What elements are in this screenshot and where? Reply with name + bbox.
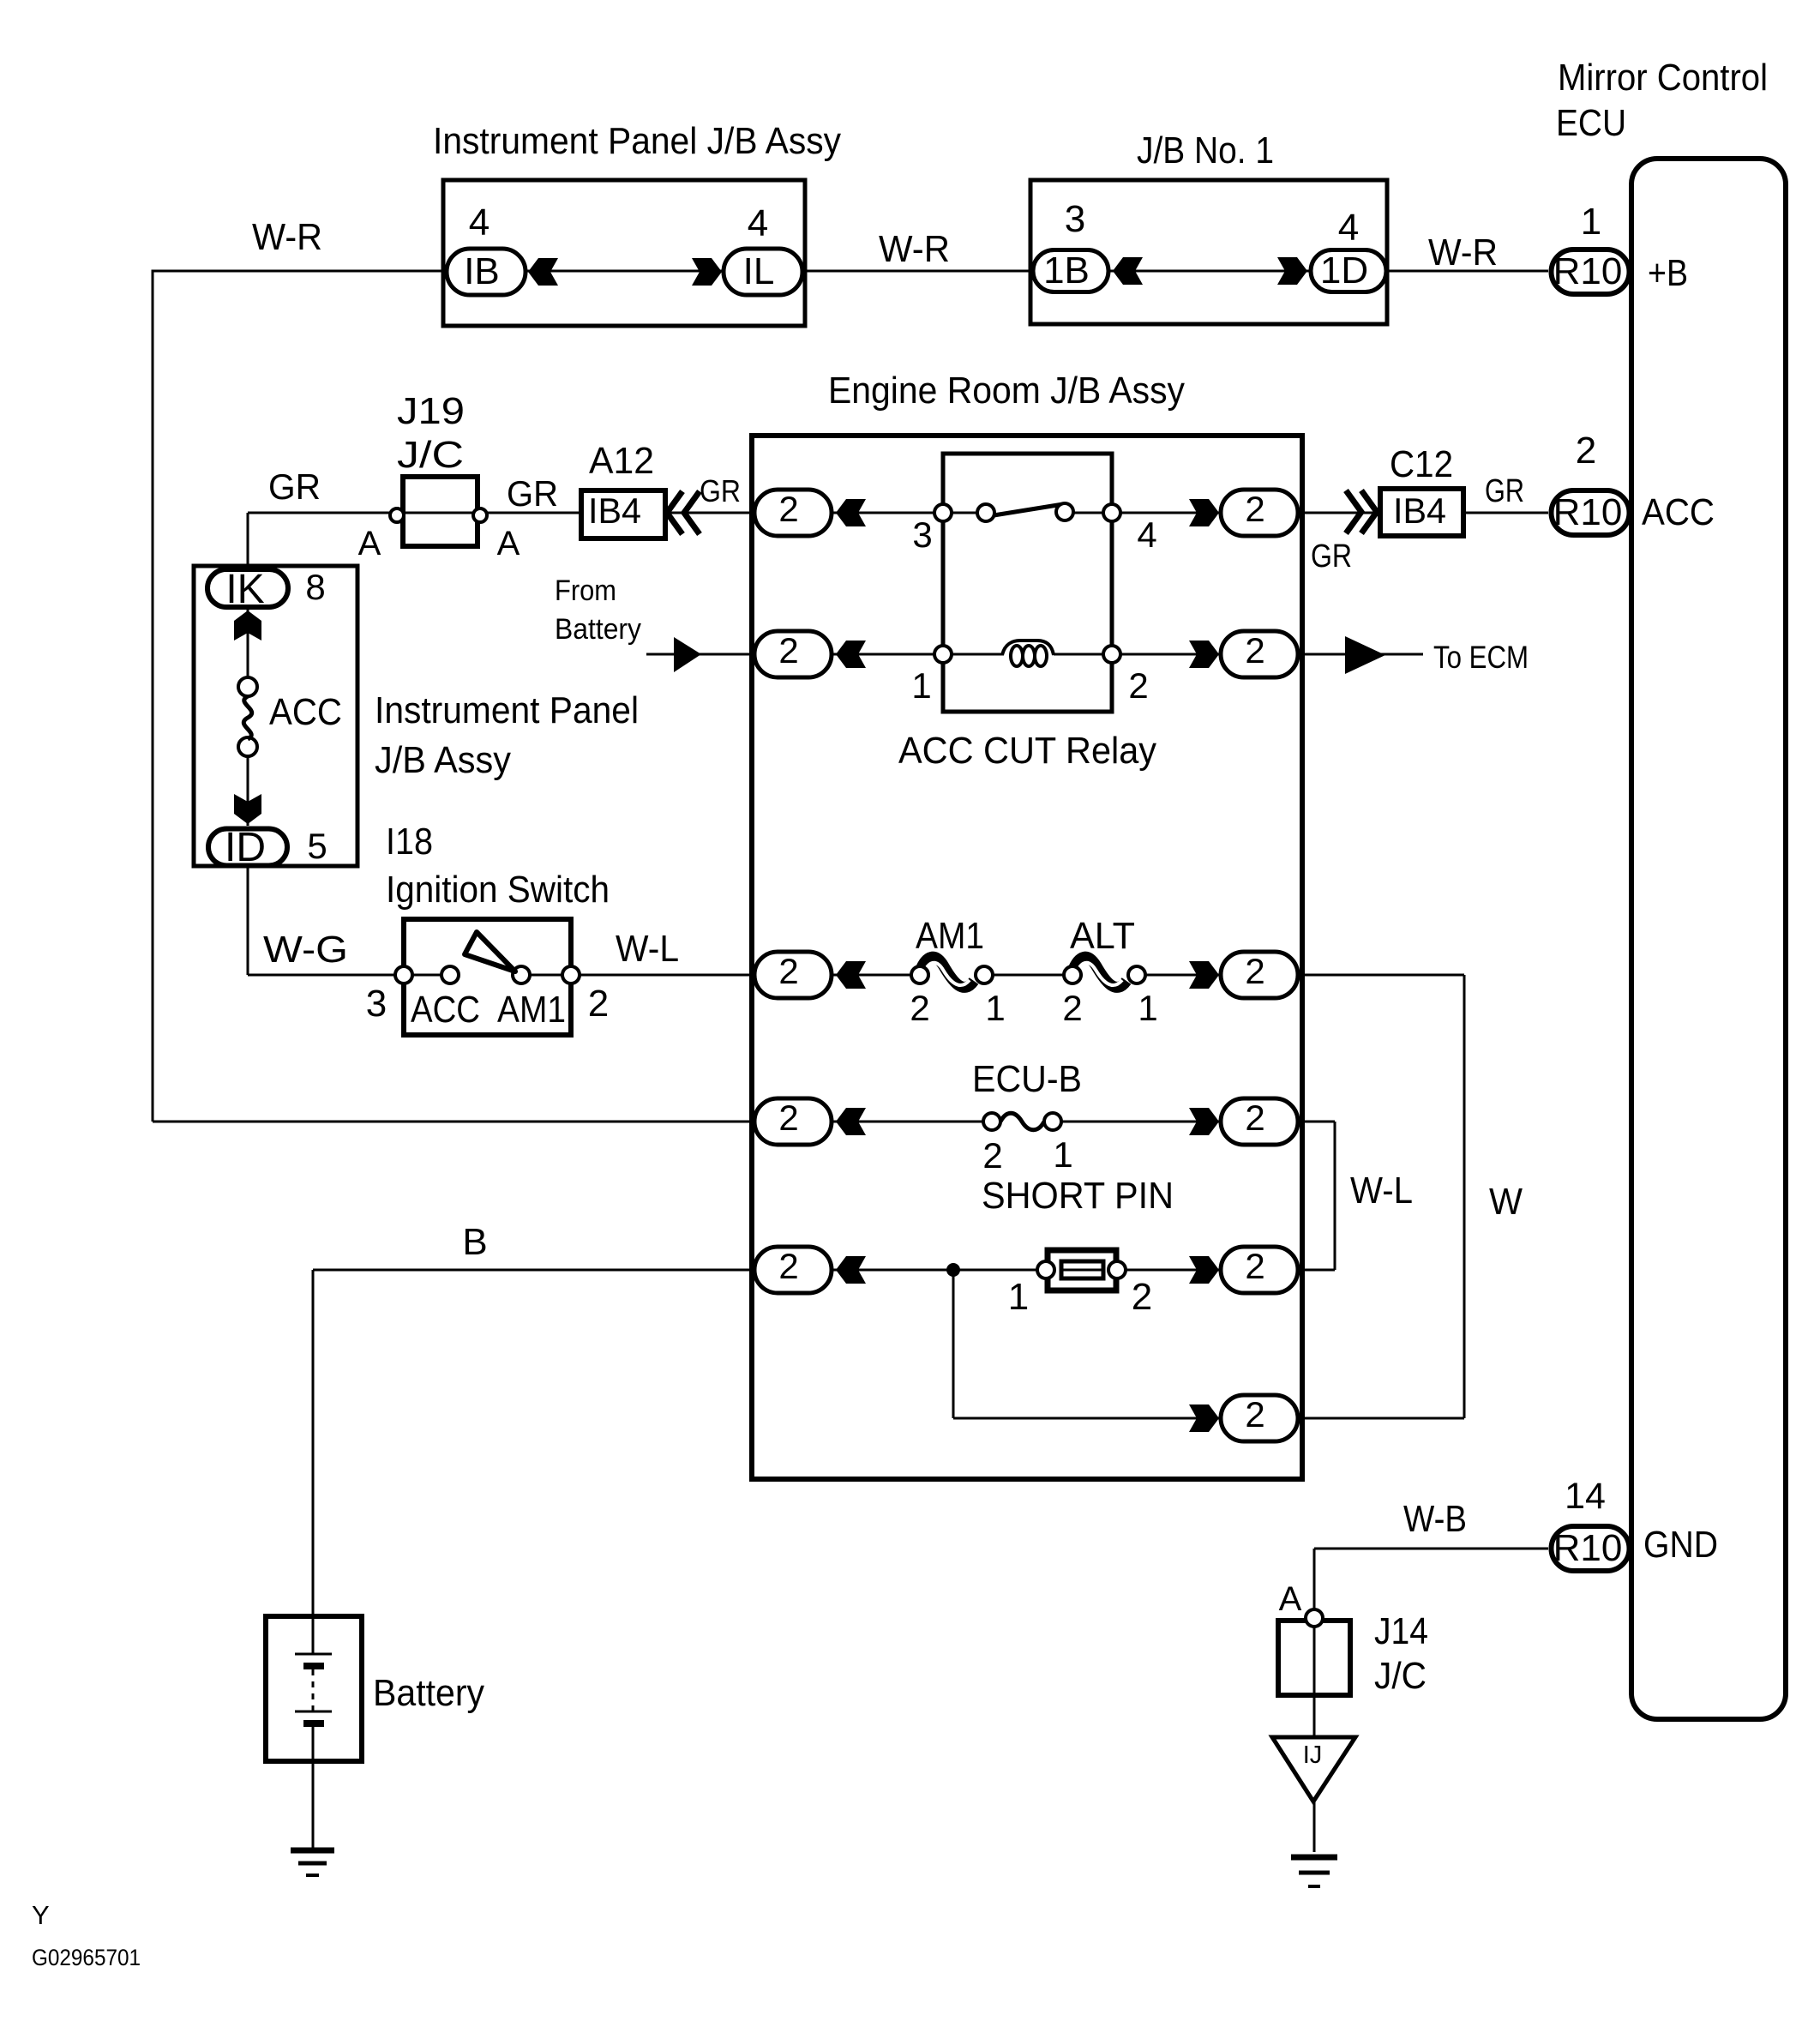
svg-text:1: 1	[985, 988, 1005, 1028]
svg-text:A12: A12	[589, 440, 654, 482]
svg-text:3: 3	[366, 983, 387, 1025]
svg-text:GR: GR	[507, 473, 558, 514]
svg-text:2: 2	[1245, 1098, 1264, 1138]
svg-text:ACC: ACC	[411, 989, 480, 1031]
svg-text:Battery: Battery	[373, 1672, 484, 1714]
svg-text:AM1: AM1	[497, 989, 566, 1031]
svg-text:C12: C12	[1390, 443, 1453, 485]
svg-text:3: 3	[1065, 198, 1085, 240]
svg-text:IB4: IB4	[1393, 490, 1446, 531]
svg-text:I18: I18	[386, 821, 433, 863]
svg-text:From: From	[555, 574, 616, 607]
svg-text:To ECM: To ECM	[1433, 640, 1529, 675]
svg-text:2: 2	[1245, 630, 1264, 671]
svg-text:J/B No. 1: J/B No. 1	[1137, 129, 1274, 171]
svg-text:W-B: W-B	[1403, 1498, 1467, 1540]
svg-text:2: 2	[1062, 988, 1082, 1028]
svg-text:IB4: IB4	[588, 490, 641, 531]
svg-text:2: 2	[1576, 430, 1596, 472]
svg-text:W-R: W-R	[1428, 232, 1498, 274]
svg-text:4: 4	[1137, 514, 1156, 555]
svg-text:2: 2	[1245, 951, 1264, 991]
svg-text:W-L: W-L	[616, 928, 679, 970]
svg-text:2: 2	[982, 1135, 1002, 1176]
svg-text:2: 2	[1245, 489, 1264, 529]
svg-text:2: 2	[778, 951, 798, 991]
svg-text:14: 14	[1565, 1476, 1606, 1517]
svg-text:5: 5	[307, 826, 327, 866]
svg-text:GR: GR	[700, 473, 741, 508]
svg-text:ACC: ACC	[269, 691, 342, 733]
svg-text:J19: J19	[397, 390, 465, 432]
svg-text:1B: 1B	[1043, 250, 1090, 292]
svg-text:ECU-B: ECU-B	[972, 1058, 1082, 1100]
svg-text:1: 1	[1581, 201, 1601, 243]
svg-text:B: B	[462, 1221, 487, 1263]
svg-text:ID: ID	[225, 825, 266, 870]
svg-text:ECU: ECU	[1556, 102, 1626, 144]
svg-text:SHORT PIN: SHORT PIN	[982, 1175, 1174, 1217]
svg-text:4: 4	[1338, 207, 1359, 249]
svg-text:2: 2	[910, 988, 929, 1028]
svg-text:R10: R10	[1553, 491, 1623, 533]
svg-text:1: 1	[1138, 988, 1157, 1028]
svg-text:W-L: W-L	[1350, 1170, 1413, 1212]
svg-text:GR: GR	[1485, 473, 1524, 509]
svg-text:8: 8	[305, 567, 325, 607]
svg-text:GND: GND	[1643, 1524, 1718, 1566]
svg-text:1: 1	[1053, 1134, 1072, 1175]
svg-text:IB: IB	[464, 250, 500, 292]
svg-text:Instrument Panel J/B Assy: Instrument Panel J/B Assy	[433, 120, 841, 162]
svg-text:W-R: W-R	[252, 216, 322, 258]
svg-text:Y: Y	[32, 1900, 50, 1930]
svg-text:2: 2	[778, 1098, 798, 1138]
svg-text:A: A	[1279, 1580, 1302, 1618]
svg-text:W-G: W-G	[263, 929, 348, 971]
svg-text:+B: +B	[1648, 252, 1688, 294]
svg-text:2: 2	[1132, 1276, 1152, 1318]
svg-text:1: 1	[1008, 1276, 1029, 1318]
svg-text:G02965701: G02965701	[32, 1945, 141, 1970]
svg-text:2: 2	[778, 1246, 798, 1286]
svg-text:W-R: W-R	[879, 228, 950, 270]
svg-text:4: 4	[748, 202, 768, 244]
svg-text:Ignition Switch: Ignition Switch	[386, 869, 610, 911]
svg-text:J14: J14	[1374, 1610, 1428, 1652]
svg-text:A: A	[358, 525, 381, 562]
svg-text:A: A	[497, 525, 520, 562]
svg-text:ALT: ALT	[1070, 915, 1135, 957]
svg-text:Instrument Panel: Instrument Panel	[375, 689, 639, 731]
svg-text:4: 4	[469, 201, 490, 244]
svg-text:2: 2	[1128, 665, 1148, 706]
svg-text:AM1: AM1	[916, 915, 984, 957]
svg-text:1: 1	[911, 665, 931, 706]
svg-text:J/C: J/C	[1374, 1655, 1427, 1697]
svg-text:ACC CUT Relay: ACC CUT Relay	[898, 730, 1156, 772]
svg-text:1D: 1D	[1320, 250, 1368, 292]
svg-text:ACC: ACC	[1642, 491, 1715, 533]
svg-text:J/B Assy: J/B Assy	[375, 739, 511, 781]
svg-text:2: 2	[778, 489, 798, 529]
svg-text:GR: GR	[1311, 538, 1352, 574]
svg-text:R10: R10	[1553, 1527, 1623, 1569]
svg-text:2: 2	[1245, 1394, 1264, 1435]
svg-text:3: 3	[912, 514, 932, 555]
svg-text:2: 2	[778, 630, 798, 671]
svg-text:2: 2	[588, 983, 609, 1025]
svg-text:IL: IL	[743, 250, 775, 292]
svg-text:IK: IK	[225, 567, 264, 612]
svg-text:J/C: J/C	[397, 434, 464, 476]
svg-text:W: W	[1489, 1181, 1523, 1223]
svg-text:2: 2	[1245, 1246, 1264, 1286]
svg-text:IJ: IJ	[1303, 1741, 1323, 1769]
svg-text:Engine Room J/B Assy: Engine Room J/B Assy	[828, 370, 1185, 412]
svg-text:GR: GR	[268, 466, 321, 507]
svg-text:R10: R10	[1553, 250, 1623, 292]
svg-text:Mirror Control: Mirror Control	[1558, 57, 1768, 99]
svg-text:Battery: Battery	[555, 613, 641, 646]
